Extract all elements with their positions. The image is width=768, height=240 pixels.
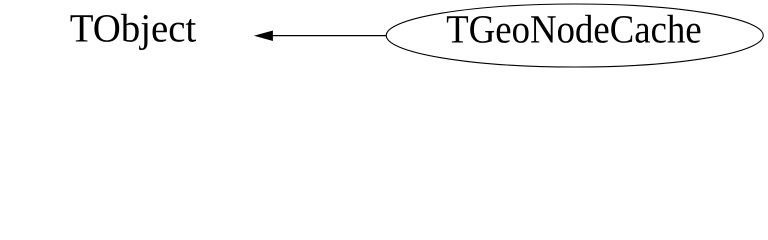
node TObject (plain-text base-class node label) xyxy=(71,14,196,50)
arrowhead pointing at TObject xyxy=(256,31,273,40)
label TGeoNodeCache xyxy=(447,15,701,43)
node ellipse TGeoNodeCache xyxy=(386,4,763,67)
wire inheritance edge from TGeoNodeCache to TObject xyxy=(272,35,387,37)
